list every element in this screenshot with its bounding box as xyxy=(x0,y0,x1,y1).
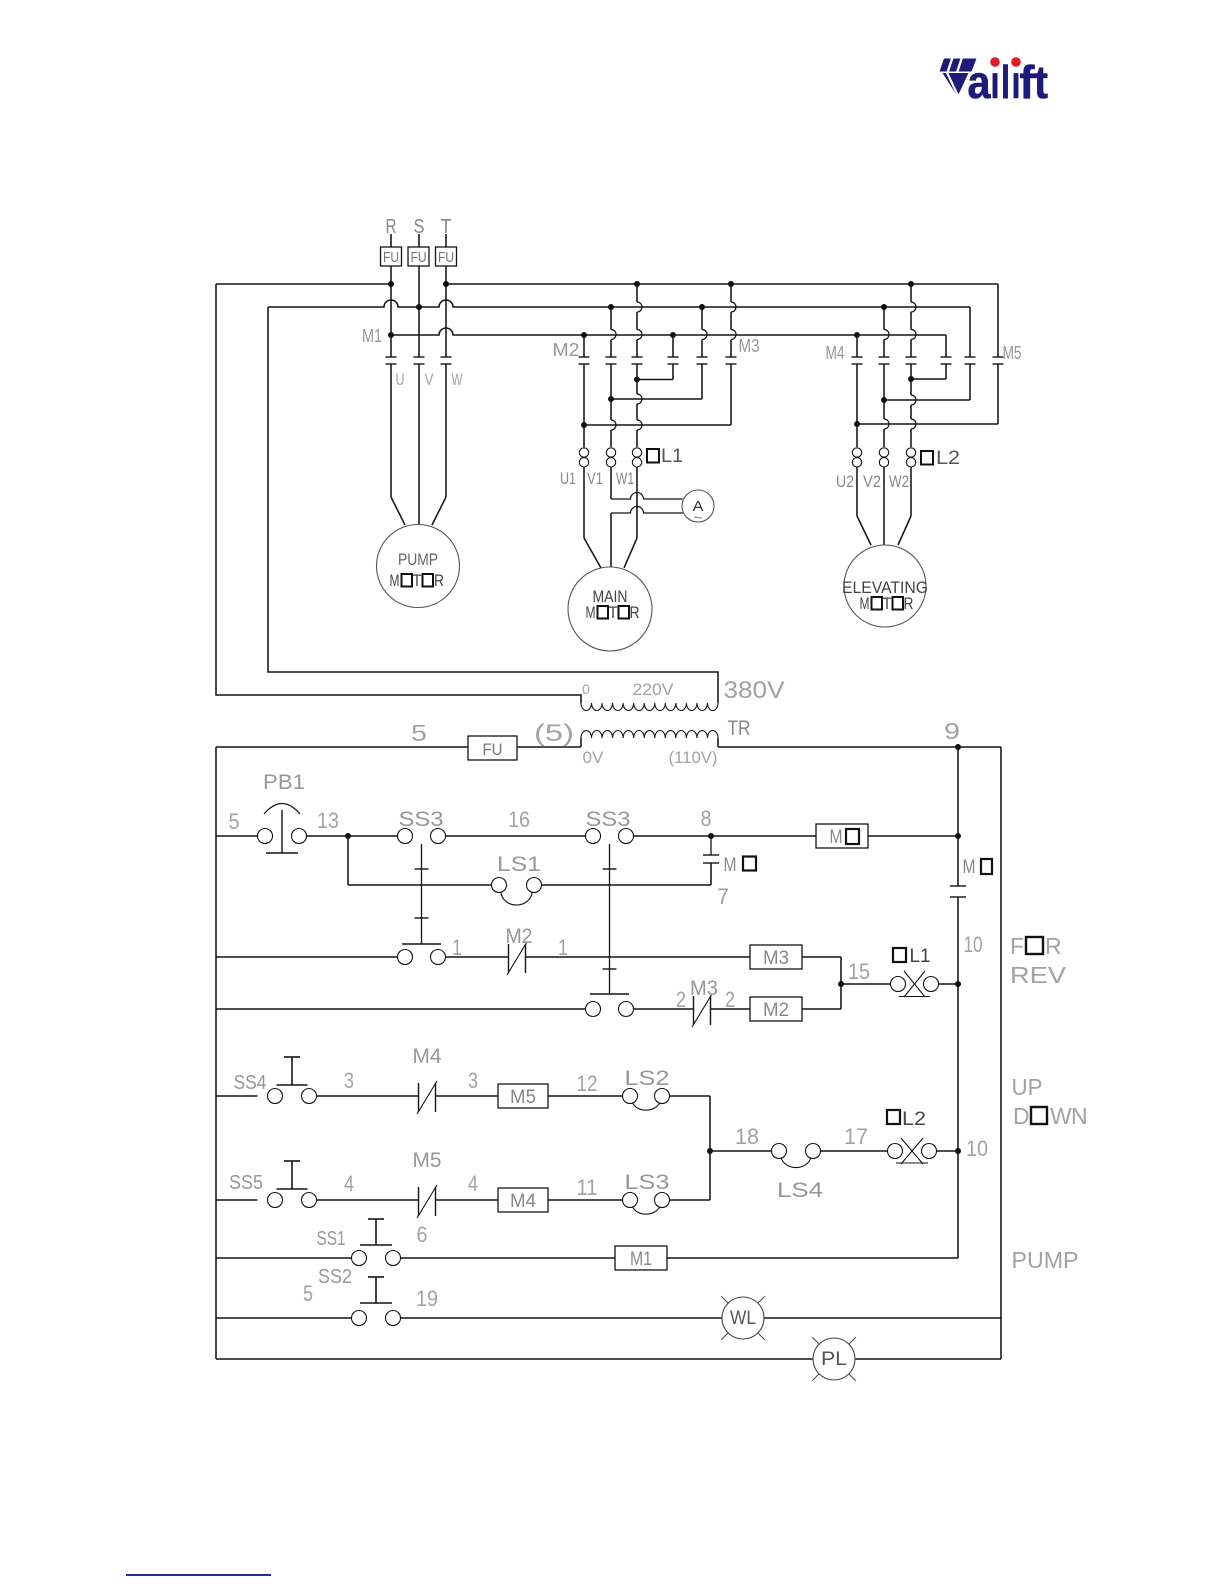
svg-text:R: R xyxy=(386,216,397,238)
svg-text:V: V xyxy=(425,370,435,389)
svg-text:L2: L2 xyxy=(936,448,960,469)
svg-text:SS2: SS2 xyxy=(318,1266,352,1288)
svg-text:L2: L2 xyxy=(902,1109,926,1130)
svg-text:6: 6 xyxy=(417,1222,428,1247)
svg-text:M4: M4 xyxy=(413,1045,442,1068)
svg-text:~: ~ xyxy=(693,510,702,527)
svg-text:t: t xyxy=(1034,56,1048,108)
svg-text:M5: M5 xyxy=(1003,343,1022,363)
svg-text:0: 0 xyxy=(582,681,590,697)
svg-text:M: M xyxy=(724,855,737,876)
svg-text:LS3: LS3 xyxy=(625,1171,670,1194)
svg-text:PUMP: PUMP xyxy=(1012,1247,1079,1273)
svg-text:18: 18 xyxy=(735,1124,759,1149)
svg-text:M: M xyxy=(963,857,976,878)
svg-text:F: F xyxy=(1010,933,1024,959)
svg-text:FU: FU xyxy=(438,249,454,266)
svg-text:W1: W1 xyxy=(616,469,634,488)
svg-text:M4: M4 xyxy=(510,1191,536,1212)
svg-text:M5: M5 xyxy=(413,1149,442,1172)
svg-text:V1: V1 xyxy=(587,469,603,488)
svg-text:2: 2 xyxy=(676,987,686,1012)
svg-text:FU: FU xyxy=(483,740,503,759)
svg-text:M2: M2 xyxy=(553,340,580,360)
svg-text:W: W xyxy=(452,370,463,389)
svg-text:U1: U1 xyxy=(560,469,576,488)
svg-text:5: 5 xyxy=(303,1281,313,1306)
svg-text:3: 3 xyxy=(344,1068,354,1093)
svg-text:UP: UP xyxy=(1012,1074,1043,1100)
svg-text:SS3: SS3 xyxy=(399,808,444,831)
svg-text:LS2: LS2 xyxy=(625,1067,670,1090)
svg-text:0V: 0V xyxy=(583,748,605,767)
svg-text:W2: W2 xyxy=(889,472,909,491)
svg-text:M3: M3 xyxy=(739,336,760,356)
svg-text:M3: M3 xyxy=(690,977,718,1000)
svg-text:M5: M5 xyxy=(510,1087,536,1108)
svg-text:M1: M1 xyxy=(362,326,382,346)
svg-text:REV: REV xyxy=(1010,962,1067,988)
svg-text:SS5: SS5 xyxy=(229,1172,263,1194)
svg-text:M2: M2 xyxy=(763,1000,789,1021)
svg-text:M2: M2 xyxy=(506,925,533,948)
svg-text:T: T xyxy=(441,216,452,238)
svg-text:15: 15 xyxy=(848,959,870,984)
svg-text:12: 12 xyxy=(577,1071,598,1096)
svg-text:(110V): (110V) xyxy=(669,748,718,767)
svg-text:SS3: SS3 xyxy=(586,808,631,831)
svg-text:FU: FU xyxy=(383,249,399,266)
svg-text:17: 17 xyxy=(844,1124,868,1149)
svg-text:R: R xyxy=(434,571,444,590)
svg-text:U: U xyxy=(396,370,405,389)
svg-text:PB1: PB1 xyxy=(263,771,305,794)
svg-text:4: 4 xyxy=(344,1171,354,1196)
svg-text:10: 10 xyxy=(966,1136,988,1161)
svg-text:11: 11 xyxy=(577,1175,598,1200)
svg-text:T: T xyxy=(883,594,892,613)
svg-text:f: f xyxy=(1020,56,1036,108)
svg-text:5: 5 xyxy=(411,720,427,746)
svg-text:SS1: SS1 xyxy=(317,1228,346,1250)
svg-text:M: M xyxy=(860,594,870,613)
svg-text:M4: M4 xyxy=(826,343,845,363)
svg-text:380V: 380V xyxy=(724,677,785,704)
svg-text:10: 10 xyxy=(964,932,983,957)
svg-text:LS4: LS4 xyxy=(777,1179,823,1202)
svg-text:4: 4 xyxy=(468,1171,478,1196)
svg-text:PL: PL xyxy=(821,1349,847,1370)
svg-text:SS4: SS4 xyxy=(234,1072,267,1094)
svg-text:R: R xyxy=(904,594,914,613)
svg-text:S: S xyxy=(414,216,425,238)
svg-text:WL: WL xyxy=(730,1308,756,1329)
svg-text:FU: FU xyxy=(411,249,427,266)
svg-text:N: N xyxy=(1071,1103,1088,1129)
svg-text:9: 9 xyxy=(944,718,960,744)
svg-text:8: 8 xyxy=(701,806,712,831)
svg-text:V2: V2 xyxy=(863,472,881,491)
svg-text:M: M xyxy=(830,827,843,848)
svg-text:W: W xyxy=(1050,1103,1072,1129)
svg-text:3: 3 xyxy=(468,1068,478,1093)
svg-text:5: 5 xyxy=(229,809,240,834)
svg-text:LS1: LS1 xyxy=(497,853,541,876)
svg-text:1: 1 xyxy=(558,935,568,960)
svg-text:L1: L1 xyxy=(661,446,683,467)
svg-text:TR: TR xyxy=(728,717,751,740)
svg-text:U2: U2 xyxy=(836,472,854,491)
svg-text:1: 1 xyxy=(452,935,462,960)
svg-text:l: l xyxy=(1001,56,1010,108)
svg-text:L1: L1 xyxy=(910,946,931,967)
svg-text:R: R xyxy=(630,603,640,622)
svg-text:16: 16 xyxy=(508,807,530,832)
svg-text:(5): (5) xyxy=(534,720,574,747)
svg-text:M3: M3 xyxy=(763,948,789,969)
svg-text:R: R xyxy=(1045,933,1062,959)
svg-text:PUMP: PUMP xyxy=(398,550,438,569)
svg-text:T: T xyxy=(413,571,422,590)
svg-text:D: D xyxy=(1013,1103,1030,1129)
svg-text:19: 19 xyxy=(416,1286,438,1311)
svg-text:T: T xyxy=(609,603,618,622)
svg-text:M: M xyxy=(586,603,596,622)
svg-text:13: 13 xyxy=(317,808,339,833)
svg-text:7: 7 xyxy=(717,884,729,909)
svg-text:220V: 220V xyxy=(633,680,675,699)
svg-text:a: a xyxy=(968,56,991,108)
svg-text:M1: M1 xyxy=(630,1249,652,1270)
svg-text:2: 2 xyxy=(725,987,735,1012)
svg-text:M: M xyxy=(390,571,400,590)
